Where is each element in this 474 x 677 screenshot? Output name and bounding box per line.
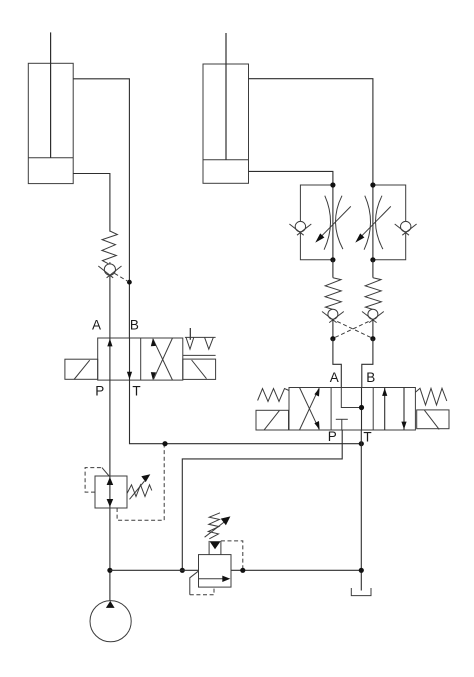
node FC2 bottom	[370, 257, 375, 262]
node tank junction	[359, 568, 364, 573]
relief valve RV2	[199, 555, 232, 588]
wire V2 port P to pump line	[182, 430, 342, 570]
svg-text:A: A	[92, 318, 101, 333]
node T junction under V2	[359, 441, 364, 446]
wire pump line to relief valve	[110, 569, 199, 571]
check valve bypass of FC1	[289, 185, 333, 260]
node pilot tap on B line	[127, 280, 132, 285]
pilot line dashed PC2 to PC1 node	[333, 322, 368, 339]
valve V2 body (4/3 directional valve)	[289, 388, 415, 431]
wire spring to check valve to valve V1 port A	[109, 262, 111, 338]
check valve CV1 (pilot operated, on A line)	[98, 264, 121, 278]
cylinder CYL1 (left)	[28, 32, 73, 183]
wire CYL1 bottom port to spring	[73, 174, 110, 232]
wire PC2 to node	[372, 319, 374, 339]
neck and seat triangle of RV2	[209, 541, 221, 555]
flow control valve FC1 (left)	[315, 185, 351, 260]
svg-text:B: B	[130, 318, 139, 333]
node T line and reducing valve drain	[162, 441, 167, 446]
spring on A line	[102, 231, 118, 264]
spring of RV1	[127, 485, 152, 497]
svg-text:T: T	[363, 430, 371, 445]
node FC1 top	[330, 182, 335, 187]
pilot line dashed of RV2	[221, 541, 243, 568]
pilot check valve PC2 ball	[362, 309, 384, 322]
pilot check valve PC1 ball	[322, 309, 344, 322]
drain of RV2	[190, 571, 214, 595]
svg-text:P: P	[328, 429, 337, 444]
wire CYL2 bottom port to flow control FC1	[249, 171, 333, 185]
valve V1 body (4/2 directional valve)	[98, 338, 183, 380]
valve V1 right position crossed arrows	[151, 338, 173, 380]
node V2 P branch	[180, 568, 185, 573]
wire FC2 to pilot check PC2	[372, 260, 374, 278]
valve V2 left position crossed arrows	[300, 388, 320, 431]
spring of pilot check PC2	[365, 278, 381, 310]
valve V2 centre position A-B-T joined P blocked	[336, 388, 364, 431]
node PC1 out	[330, 336, 335, 341]
svg-text:B: B	[366, 370, 375, 385]
adjustment arrow of RV1	[130, 474, 151, 499]
spring of V2 (left end)	[258, 389, 289, 402]
wire PC2 node to valve V2 port B	[362, 339, 373, 388]
wire CYL1 top port to valve V1 port B	[73, 79, 129, 338]
flow control valve FC2 (right)	[355, 185, 391, 260]
wire CYL2 top port to flow control FC2	[249, 79, 373, 185]
wire FC1 to pilot check PC1	[332, 260, 334, 278]
spring of pilot check PC1	[325, 278, 341, 310]
pilot line dashed PC1 to PC2 node	[337, 322, 372, 339]
solenoid of V1 (left end)	[65, 359, 98, 379]
wire PC1 to node	[332, 319, 334, 339]
pilot line dashed of RV1 (left loop)	[85, 468, 109, 493]
wire relief valve to tank line	[231, 569, 361, 571]
drain line dashed of RV1 to T line	[117, 446, 164, 520]
wire V2 port T down to tank	[360, 430, 362, 591]
node FC2 top	[370, 182, 375, 187]
pilot line dashed from CV1 to B line	[115, 273, 129, 281]
solenoid of V2 (right end)	[417, 410, 449, 430]
cylinder CYL2 (right)	[203, 33, 249, 183]
valve V2 right position parallel arrows	[382, 388, 407, 431]
svg-text:P: P	[95, 384, 104, 399]
wire PC1 node to valve V2 port A	[333, 339, 341, 388]
detent and solenoid of V1 (right end)	[183, 328, 216, 379]
wire V1 port T down and right to tank line	[130, 380, 362, 444]
pressure reducing valve RV1	[95, 476, 127, 508]
valve V1 left position arrows P-A B-T	[107, 338, 132, 380]
node pump branch	[107, 568, 112, 573]
node RV2 pilot tap	[240, 568, 245, 573]
spring of RV2	[208, 513, 220, 539]
pump P1	[90, 601, 131, 642]
node PC2 out	[370, 336, 375, 341]
svg-text:A: A	[330, 370, 339, 385]
adjustment arrow of RV2	[205, 516, 231, 537]
check valve bypass of FC2	[373, 185, 417, 260]
tank symbol	[351, 588, 371, 596]
wire V1 port P down through reducing valve to pump	[109, 380, 111, 600]
node FC1 bottom	[330, 257, 335, 262]
svg-text:T: T	[132, 384, 140, 399]
spring of V2 (right end)	[415, 388, 446, 405]
solenoid of V2 (left end)	[256, 410, 289, 430]
